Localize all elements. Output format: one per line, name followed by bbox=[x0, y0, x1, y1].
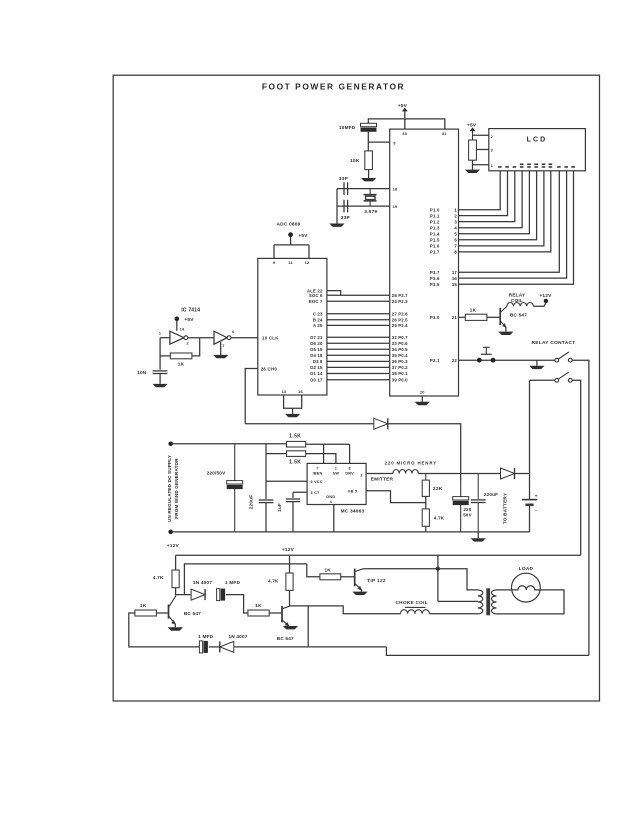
svg-text:D5 19: D5 19 bbox=[310, 347, 323, 352]
capacitor 10N bbox=[153, 370, 168, 372]
wire bus 6 bbox=[327, 336, 390, 338]
capacitor C 220/50V input bbox=[234, 444, 236, 481]
wire bottom rail bbox=[171, 531, 530, 533]
ground (LCD) bbox=[465, 170, 480, 173]
svg-text:P3.1: P3.1 bbox=[430, 358, 440, 363]
capacitor C 220uF output bbox=[477, 474, 479, 499]
svg-text:33P: 33P bbox=[339, 176, 349, 182]
svg-text:3: 3 bbox=[454, 219, 457, 224]
wire 33P left vertical bbox=[336, 189, 338, 224]
svg-text:P1.2: P1.2 bbox=[430, 219, 440, 224]
svg-text:+5V: +5V bbox=[398, 103, 408, 109]
wire cap to ground bbox=[159, 374, 161, 384]
wire LCD line 4 bbox=[459, 171, 523, 228]
wire feedback left vertical bbox=[159, 338, 161, 370]
wire bus 8 bbox=[327, 348, 390, 350]
wire P3.1 bbox=[459, 359, 555, 361]
resistor 10K bbox=[365, 151, 373, 170]
svg-text:10N: 10N bbox=[137, 370, 147, 375]
transistor Q1 BC547 bbox=[168, 605, 170, 619]
svg-text:1K: 1K bbox=[140, 603, 147, 608]
inductor choke coil bbox=[405, 606, 425, 608]
svg-text:26 P2.5: 26 P2.5 bbox=[392, 318, 408, 323]
wire rail ground stem bbox=[477, 532, 479, 538]
wire LCD pin2 bbox=[473, 134, 489, 136]
wire rail to 4.7K Q2 bbox=[289, 555, 291, 573]
svg-text:C 23: C 23 bbox=[313, 312, 323, 317]
wire P3.0 bbox=[459, 316, 466, 318]
wire ALE stub bbox=[327, 291, 341, 296]
svg-text:35 P0.4: 35 P0.4 bbox=[392, 353, 408, 358]
svg-text:1K: 1K bbox=[178, 362, 185, 367]
svg-text:16: 16 bbox=[298, 389, 303, 394]
svg-text:17: 17 bbox=[452, 270, 458, 275]
svg-text:P3.5: P3.5 bbox=[430, 282, 440, 287]
wire battery to rail bbox=[529, 505, 531, 532]
svg-text:D4 18: D4 18 bbox=[310, 353, 323, 358]
svg-text:LCD: LCD bbox=[527, 136, 548, 143]
wire 22K to 4.7K bbox=[425, 496, 427, 509]
wire LCD line 7 bbox=[459, 171, 544, 246]
svg-text:15: 15 bbox=[452, 282, 458, 287]
transistor Q3 BC547 relay bbox=[499, 308, 501, 325]
svg-text:ADC 0809: ADC 0809 bbox=[277, 222, 301, 228]
wire FB pin path bbox=[366, 491, 426, 503]
svg-text:+12V: +12V bbox=[167, 543, 180, 549]
wire TIP collector bbox=[363, 568, 438, 570]
resistor LCD contrast bbox=[469, 140, 477, 160]
transformer T1 secondary bbox=[492, 590, 497, 614]
svg-text:P1.3: P1.3 bbox=[430, 225, 440, 230]
svg-text:P3.7: P3.7 bbox=[430, 270, 440, 275]
ground (TIP) bbox=[352, 592, 367, 595]
wire bus 5 bbox=[327, 324, 390, 326]
resistor 22K bbox=[425, 474, 427, 481]
wire LCD line 1 bbox=[459, 171, 501, 210]
svg-text:1: 1 bbox=[491, 164, 493, 168]
svg-text:D6 20: D6 20 bbox=[310, 341, 323, 346]
svg-text:3 CT: 3 CT bbox=[311, 491, 321, 495]
svg-text:1 MFD: 1 MFD bbox=[198, 634, 213, 639]
wire ADC bottom bracket bbox=[284, 395, 302, 414]
resistor 4.7K Q2 bbox=[286, 573, 293, 590]
svg-text:16: 16 bbox=[452, 276, 458, 281]
svg-text:6: 6 bbox=[232, 330, 234, 334]
ground (adc) bbox=[285, 414, 300, 417]
diode D3 output bbox=[501, 468, 515, 479]
svg-text:EOC 7: EOC 7 bbox=[309, 299, 323, 304]
svg-text:RELAY: RELAY bbox=[509, 292, 526, 297]
svg-text:50V: 50V bbox=[463, 513, 471, 518]
svg-text:37 P0.2: 37 P0.2 bbox=[392, 365, 408, 370]
svg-text:1N 4007: 1N 4007 bbox=[193, 580, 212, 585]
svg-text:1K: 1K bbox=[255, 603, 262, 608]
resistor 1K relay bbox=[465, 314, 487, 320]
wire contact2 right bbox=[572, 380, 581, 555]
svg-text:33 P0.6: 33 P0.6 bbox=[392, 341, 408, 346]
svg-text:FROM WIND GENERATOR: FROM WIND GENERATOR bbox=[174, 458, 179, 519]
svg-text:8: 8 bbox=[348, 466, 350, 470]
svg-text:19: 19 bbox=[393, 204, 398, 209]
node unregulated - terminal bbox=[168, 530, 173, 535]
svg-text:21: 21 bbox=[452, 315, 458, 320]
svg-text:6: 6 bbox=[454, 238, 457, 243]
wire 1.5K lower left bbox=[266, 453, 287, 455]
svg-text:GND: GND bbox=[326, 495, 335, 499]
node junction dots P3.1 bbox=[477, 358, 482, 363]
wire inv2 ground stem bbox=[220, 342, 222, 355]
svg-text:P1.0: P1.0 bbox=[430, 208, 440, 213]
svg-text:2: 2 bbox=[454, 213, 457, 218]
svg-text:IBEN: IBEN bbox=[313, 471, 323, 475]
capacitor 33P lower bbox=[343, 200, 345, 213]
capacitor 33P upper bbox=[343, 182, 345, 195]
adc U1 ADC0809 bbox=[258, 258, 327, 395]
svg-text:P1.5: P1.5 bbox=[430, 238, 440, 243]
capacitor C 10MFD bbox=[361, 123, 377, 126]
capacitor C 220/50V output bbox=[460, 481, 462, 497]
svg-text:33P: 33P bbox=[341, 215, 351, 221]
wire LCD line 10 bbox=[459, 171, 567, 278]
lamp LOAD bbox=[512, 573, 541, 602]
wire bus 12 bbox=[327, 373, 390, 375]
svg-text:+12V: +12V bbox=[282, 547, 295, 553]
resistor 1K TIP bbox=[320, 574, 341, 580]
power +5V terminal (7414) bbox=[175, 317, 180, 322]
switch relay contact 2 bbox=[555, 378, 559, 382]
ground (rail) bbox=[471, 538, 486, 541]
svg-text:DRV: DRV bbox=[345, 471, 354, 475]
svg-text:38 P0.1: 38 P0.1 bbox=[392, 371, 408, 376]
resistor 1K feedback bbox=[170, 353, 192, 359]
svg-text:BC 547: BC 547 bbox=[184, 611, 201, 616]
capacitor C 1MFD top bbox=[217, 589, 220, 601]
ground (Q1) bbox=[168, 627, 183, 630]
svg-text:FOOT POWER GENERATOR: FOOT POWER GENERATOR bbox=[262, 81, 405, 91]
svg-text:SOC 6: SOC 6 bbox=[309, 293, 323, 298]
diode D4 1N4007 bbox=[191, 589, 205, 600]
transistor Q4 TIP122 bbox=[354, 569, 356, 587]
svg-text:18: 18 bbox=[393, 187, 398, 192]
svg-text:BC 547: BC 547 bbox=[277, 636, 294, 641]
svg-text:1.5K: 1.5K bbox=[289, 459, 301, 465]
transistor Q2 BC547 bbox=[281, 606, 283, 623]
svg-text:7: 7 bbox=[222, 344, 224, 348]
capacitor C 220uF (vcc) bbox=[259, 499, 274, 501]
diode D5 1N4007 bottom bbox=[220, 641, 234, 652]
svg-text:4.7K: 4.7K bbox=[153, 575, 164, 580]
crystal X1 3.579 bbox=[369, 189, 371, 195]
wire inv1 output bbox=[188, 337, 214, 339]
svg-text:+: + bbox=[535, 495, 538, 500]
wire coil to +12V bbox=[533, 303, 546, 306]
svg-text:220/50V: 220/50V bbox=[207, 470, 227, 475]
svg-text:7: 7 bbox=[454, 244, 457, 249]
wire ADC supply bracket bbox=[274, 237, 309, 258]
wire 10K to ground bbox=[368, 170, 370, 178]
svg-text:1: 1 bbox=[159, 332, 161, 336]
wire mcu pin20 ground stem bbox=[421, 396, 423, 402]
wire cap top out bbox=[226, 595, 248, 613]
wire clk bbox=[231, 337, 258, 339]
wire LCD line 5 bbox=[459, 171, 530, 234]
ground (10N) bbox=[153, 384, 168, 387]
wire 1K to Q2 base bbox=[269, 612, 282, 614]
svg-text:10K: 10K bbox=[350, 158, 360, 164]
pin ticks LCD data pins bbox=[498, 166, 502, 168]
ground (mcu) bbox=[415, 402, 430, 405]
svg-text:11: 11 bbox=[288, 260, 293, 265]
svg-text:220uF: 220uF bbox=[249, 495, 254, 510]
wire feedback right bbox=[192, 338, 200, 356]
svg-text:7: 7 bbox=[316, 466, 318, 470]
svg-text:220uF: 220uF bbox=[484, 492, 498, 497]
svg-text:8: 8 bbox=[454, 250, 457, 255]
resistor 1.5K lower bbox=[287, 451, 306, 457]
svg-text:CHOKE COIL: CHOKE COIL bbox=[395, 600, 427, 605]
wire 220uF to rail bbox=[265, 503, 267, 532]
svg-text:3: 3 bbox=[491, 148, 493, 152]
inverter U4A bbox=[170, 331, 184, 344]
wire LCD line 8 bbox=[459, 171, 551, 252]
svg-text:RELAY CONTACT: RELAY CONTACT bbox=[531, 340, 575, 346]
svg-text:32 P0.7: 32 P0.7 bbox=[392, 335, 408, 340]
svg-text:+5V: +5V bbox=[467, 123, 477, 129]
battery BT1 bbox=[522, 499, 537, 501]
svg-text:D3 8: D3 8 bbox=[313, 359, 323, 364]
wire resistor to ground bbox=[472, 160, 474, 169]
wire LCD pin1 bbox=[473, 164, 489, 166]
svg-text:28 P2.7: 28 P2.7 bbox=[392, 293, 408, 298]
wire Q2 collector to chain bbox=[307, 606, 309, 647]
wire feedback branch bbox=[160, 355, 170, 357]
svg-text:1: 1 bbox=[335, 466, 337, 470]
wire cap-diode bottom bbox=[209, 646, 220, 648]
transformer T1 primary bbox=[478, 590, 483, 614]
svg-text:13: 13 bbox=[282, 389, 287, 394]
wire LCD line 3 bbox=[459, 171, 515, 222]
resistor 1K Q2 base bbox=[248, 610, 269, 616]
regulator U5 MC34063 bbox=[307, 463, 366, 504]
wire CT pin bbox=[293, 492, 307, 498]
svg-text:+5V: +5V bbox=[184, 317, 194, 323]
svg-text:10MFD: 10MFD bbox=[339, 125, 356, 130]
svg-text:1: 1 bbox=[454, 208, 457, 213]
svg-text:1.5K: 1.5K bbox=[289, 434, 301, 440]
svg-text:LOAD: LOAD bbox=[519, 566, 534, 572]
svg-text:P1.6: P1.6 bbox=[430, 244, 440, 249]
ground (10K) bbox=[361, 178, 376, 181]
svg-text:4: 4 bbox=[454, 225, 457, 230]
svg-text:FB 5: FB 5 bbox=[348, 490, 357, 494]
svg-text:27 P2.6: 27 P2.6 bbox=[392, 312, 408, 317]
ground (Q2) bbox=[283, 626, 298, 629]
wire pin40 supply bbox=[404, 111, 406, 130]
wire bus 1 bbox=[327, 294, 390, 296]
svg-text:36 P0.3: 36 P0.3 bbox=[392, 359, 408, 364]
svg-text:1N 4007: 1N 4007 bbox=[228, 634, 247, 639]
svg-text:A 25: A 25 bbox=[313, 323, 323, 328]
svg-text:26 CH0: 26 CH0 bbox=[261, 366, 278, 371]
wire pin19 bbox=[337, 205, 390, 207]
wire pin18 bbox=[337, 188, 390, 190]
wire LCD line 2 bbox=[459, 171, 508, 216]
svg-text:12: 12 bbox=[305, 260, 310, 265]
wire LCD line 6 bbox=[459, 171, 537, 240]
svg-text:P1.4: P1.4 bbox=[430, 231, 440, 236]
ground (relay emitter) bbox=[498, 332, 513, 335]
svg-text:2: 2 bbox=[186, 342, 188, 346]
svg-text:14: 14 bbox=[180, 328, 185, 332]
wire bottom chain right bbox=[234, 646, 308, 648]
svg-text:TO BATTERY: TO BATTERY bbox=[503, 492, 508, 524]
ground (7414) bbox=[213, 355, 228, 358]
svg-text:UN REGULATED DC SUPPLY: UN REGULATED DC SUPPLY bbox=[167, 455, 172, 522]
mcu U2 89C51 bbox=[390, 129, 459, 396]
wire top input rail bbox=[171, 443, 287, 445]
wire collector to tip-line bbox=[184, 564, 306, 595]
wire CH0 stub bbox=[245, 369, 258, 424]
svg-text:TIP 122: TIP 122 bbox=[367, 578, 386, 583]
resistor 4.7K (fb) bbox=[422, 509, 429, 526]
wire 1.5K lower right bbox=[306, 454, 336, 464]
wire contact2 left bbox=[530, 379, 555, 381]
svg-text:4.7K: 4.7K bbox=[434, 516, 445, 521]
svg-text:D2 15: D2 15 bbox=[310, 365, 323, 370]
inductor L1 220uH bbox=[393, 470, 418, 474]
transformer T1 core bbox=[486, 588, 490, 615]
wire tip base feed bbox=[307, 564, 320, 577]
wire bus 11 bbox=[327, 366, 390, 368]
svg-text:+12V: +12V bbox=[539, 293, 552, 299]
svg-text:-: - bbox=[535, 508, 537, 513]
wire GND pin to rail bbox=[333, 505, 335, 532]
svg-text:BC 547: BC 547 bbox=[510, 312, 527, 317]
svg-text:1K: 1K bbox=[324, 567, 331, 572]
wire bus 3 bbox=[327, 313, 390, 315]
svg-text:39 P0.0: 39 P0.0 bbox=[392, 377, 408, 382]
wire rail to 4.7K Q1 bbox=[175, 555, 177, 570]
diode D2 sense bbox=[374, 418, 388, 429]
svg-text:34 P0.5: 34 P0.5 bbox=[392, 347, 408, 352]
wire Q1 base chain bbox=[129, 613, 200, 647]
svg-text:+5V: +5V bbox=[298, 233, 308, 239]
svg-text:1 MFD: 1 MFD bbox=[225, 580, 240, 585]
svg-text:P1.7: P1.7 bbox=[430, 250, 440, 255]
resistor 4.7K Q1 bbox=[172, 570, 179, 588]
wire inductor to diode bbox=[418, 473, 500, 475]
svg-text:25 P2.4: 25 P2.4 bbox=[392, 323, 408, 328]
svg-text:D1 14: D1 14 bbox=[310, 371, 323, 376]
wire secondary top bbox=[496, 589, 512, 591]
svg-text:40: 40 bbox=[402, 131, 407, 136]
wire Q1 base line bbox=[156, 612, 168, 614]
svg-text:5: 5 bbox=[454, 231, 457, 236]
wire 7414 supply stem bbox=[176, 321, 178, 331]
wire VCC pin bbox=[266, 480, 307, 482]
svg-text:B 24: B 24 bbox=[313, 318, 323, 323]
wire 4.7K to rail bbox=[425, 526, 427, 532]
svg-text:D0 17: D0 17 bbox=[310, 377, 323, 382]
svg-text:D7 21: D7 21 bbox=[310, 335, 323, 340]
svg-text:22K: 22K bbox=[433, 486, 443, 492]
wire LCD line 9 bbox=[459, 171, 560, 272]
wire bus 13 bbox=[327, 379, 390, 381]
wire chain to contact line bbox=[308, 647, 589, 656]
wire Q1 emitter stem bbox=[174, 624, 176, 627]
wire TIP emitter stem bbox=[361, 590, 363, 592]
wire 1K to base bbox=[487, 316, 500, 318]
wire center tap bbox=[438, 555, 478, 601]
wire P3.1 ground stem bbox=[536, 360, 538, 366]
switch relay contact 1 bbox=[555, 358, 559, 362]
svg-text:24 P2.3: 24 P2.3 bbox=[392, 299, 408, 304]
wire bus 7 bbox=[327, 342, 390, 344]
node junction ct bbox=[436, 567, 440, 571]
svg-text:6 VCC: 6 VCC bbox=[311, 480, 323, 484]
svg-text:220 MICRO HENRY: 220 MICRO HENRY bbox=[385, 461, 437, 466]
wire Q1 collector node bbox=[176, 588, 192, 595]
wire pin2 to inductor bbox=[366, 473, 393, 475]
svg-text:22: 22 bbox=[452, 358, 458, 363]
wire LCD pin3 bbox=[476, 149, 488, 151]
wire load loop bbox=[496, 590, 564, 614]
svg-text:10 CLK: 10 CLK bbox=[262, 335, 279, 340]
capacitor C 1MFD bottom bbox=[199, 641, 202, 653]
switch pushbutton bbox=[481, 353, 492, 355]
wire +12V osc rail bbox=[176, 554, 581, 556]
svg-text:IC 7414: IC 7414 bbox=[181, 307, 200, 313]
wire pin 9 bbox=[368, 141, 389, 143]
wire Q2 collector line bbox=[290, 606, 401, 614]
wire sense line left bbox=[245, 423, 374, 425]
svg-text:2: 2 bbox=[491, 135, 493, 139]
svg-text:4.7K: 4.7K bbox=[268, 579, 279, 584]
wire sense line right bbox=[388, 424, 461, 481]
svg-text:EMITTER: EMITTER bbox=[371, 477, 394, 483]
capacitor C 1uF bbox=[286, 498, 300, 500]
node unregulated + terminal bbox=[168, 442, 173, 447]
wire 4.7K Q2 to collector bbox=[289, 590, 291, 606]
resistor 1.5K upper bbox=[287, 441, 306, 447]
svg-text:31: 31 bbox=[442, 131, 447, 136]
wire 1.5K upper right bbox=[306, 444, 350, 463]
ground (P3.1) bbox=[529, 366, 544, 369]
power +5V terminal (ADC) bbox=[288, 232, 293, 237]
wire emitter to ground bbox=[505, 327, 507, 331]
inductor relay coil bbox=[507, 302, 534, 306]
wire bus 10 bbox=[327, 360, 390, 362]
wire choke to primary bbox=[429, 613, 478, 615]
wire battery/switch vertical bbox=[529, 380, 531, 499]
ground (33P) bbox=[329, 224, 344, 227]
power +12V terminal (relay) bbox=[544, 299, 548, 303]
resistor 1K Q1 base bbox=[135, 610, 157, 616]
wire LCD line 11 bbox=[459, 171, 574, 284]
wire bus 2 bbox=[327, 300, 390, 302]
svg-text:2: 2 bbox=[360, 474, 362, 478]
svg-text:SW: SW bbox=[333, 471, 340, 475]
wire contact1 right bbox=[572, 360, 589, 655]
svg-text:P1.1: P1.1 bbox=[430, 213, 440, 218]
display LCD U3 bbox=[489, 129, 586, 171]
wire collector to primary top bbox=[438, 569, 478, 590]
svg-text:MC 34063: MC 34063 bbox=[341, 509, 365, 515]
wire 1K to TIP base bbox=[341, 576, 355, 578]
wire +5V rail bbox=[368, 119, 445, 129]
border frame bbox=[113, 75, 599, 701]
wire 1uF to rail bbox=[292, 502, 294, 532]
